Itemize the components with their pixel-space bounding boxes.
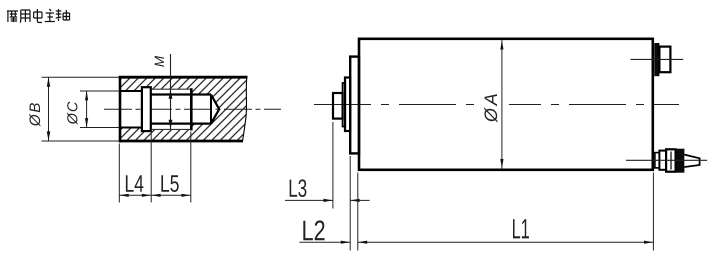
arrowheads of thread callout M xyxy=(169,89,173,98)
电 xyxy=(34,9,42,23)
break line (right, wavy) xyxy=(242,76,247,142)
shaft tip xyxy=(333,93,343,119)
thread relief groove xyxy=(142,87,151,131)
轴 xyxy=(56,9,70,21)
arrowheads of dimension OC xyxy=(85,91,88,100)
thread major diameter (thin) xyxy=(151,89,191,129)
thread minor / drilled hole (thick) xyxy=(151,88,219,130)
dimension L2 xyxy=(300,173,358,251)
hatched section of spindle nose xyxy=(120,77,247,141)
dimensions L4 / L5 xyxy=(119,132,191,203)
top connector leader xyxy=(631,58,684,60)
top connector plug xyxy=(659,47,670,73)
title 磨用电主轴 (hand-drawn CJK strokes) xyxy=(7,9,70,23)
cone base xyxy=(210,95,212,124)
small step xyxy=(343,83,346,127)
top edge xyxy=(119,76,248,79)
label OA (rotated) xyxy=(484,94,497,122)
arrowheads of dimension L1 xyxy=(358,241,367,244)
arrowhead of dimension L2 xyxy=(341,241,350,244)
label L3 xyxy=(290,179,307,197)
arrowheads of dimension L3 xyxy=(324,199,333,202)
arrowheads of dimensions L4 and L5 xyxy=(119,194,128,197)
dimension L3 xyxy=(285,122,370,251)
label L5 xyxy=(155,56,164,67)
dimension L1 xyxy=(358,173,654,251)
用 xyxy=(20,10,30,23)
spindle body xyxy=(359,39,653,170)
dimension OB xyxy=(42,77,120,141)
bottom connector (grease fitting) xyxy=(626,149,707,173)
drill point cone xyxy=(211,95,219,124)
top connector collar (filled) xyxy=(654,43,659,76)
bore walls (entry counterbore) xyxy=(121,91,142,128)
flange B xyxy=(345,78,350,132)
arrowheads of dimension OA xyxy=(500,40,503,49)
M thread callout: leader + arrows xyxy=(170,54,172,129)
dimension OC xyxy=(80,91,119,128)
left face xyxy=(119,76,122,142)
block outline: spindle body section xyxy=(119,76,248,142)
label L2 xyxy=(303,220,324,240)
centerline (right view) xyxy=(314,104,679,106)
centerline (left view) xyxy=(104,108,281,110)
label L4 xyxy=(126,175,144,192)
label OC (rotated) xyxy=(67,102,78,125)
磨 xyxy=(7,11,18,22)
arrowheads of dimension OB xyxy=(47,77,50,87)
label L1 xyxy=(513,219,529,238)
full-thread end line xyxy=(190,88,193,130)
label OB (rotated) xyxy=(29,103,40,126)
主 xyxy=(45,9,55,22)
bottom edge xyxy=(119,140,243,143)
front flange A xyxy=(350,57,359,154)
dimension OA xyxy=(477,102,509,106)
